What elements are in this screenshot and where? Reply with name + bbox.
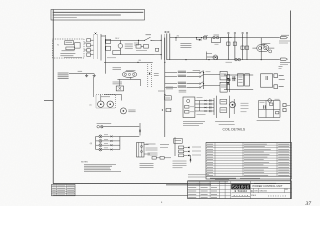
svg-text:240: 240 [139,60,142,62]
svg-text:POWER CONTROL UNIT: POWER CONTROL UNIT [253,184,283,188]
svg-text:581016: 581016 [260,191,268,193]
svg-text:D: D [251,190,253,193]
svg-text:(4): (4) [90,143,93,145]
svg-text:37: 37 [305,201,312,206]
svg-text:REV: REV [285,189,288,191]
svg-text:260: 260 [177,35,180,37]
svg-text:0 1 2 3 4 5: 0 1 2 3 4 5 [234,194,249,197]
svg-text:COIL DETAILS: COIL DETAILS [223,128,246,132]
svg-text:NOTES:: NOTES: [81,162,89,164]
svg-text:T1: T1 [57,45,59,47]
svg-text:0 0 0 0 0 1 0 5: 0 0 0 0 0 1 0 5 [268,195,287,198]
